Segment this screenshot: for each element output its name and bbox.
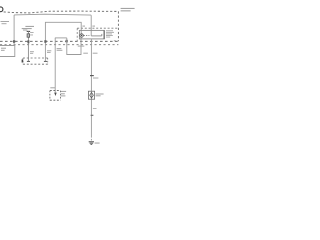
left margin label line 1 xyxy=(1,21,10,22)
fuse F1 body xyxy=(27,34,30,37)
switch S1 label line 2 xyxy=(57,49,63,52)
wire: left vertical feed (x=14.4) xyxy=(13,15,15,46)
relay K1 right edge (darker) xyxy=(103,30,105,39)
relay connector dashed box (bottom-right tick) xyxy=(114,40,119,42)
connector C1 cavity mark (left) xyxy=(22,60,24,63)
junction blob at line A crossing (x=66.6) xyxy=(66,40,68,43)
fuse F1 rating label 2 xyxy=(30,34,33,37)
connector C2 label line 2 xyxy=(61,93,65,94)
relay K1 contact tick xyxy=(101,34,103,36)
relay K1 name label line 2 xyxy=(106,31,114,34)
relay K1 name label line 4 xyxy=(106,34,113,37)
relay K1 coil circle xyxy=(80,34,83,37)
connector C2 label line 3 xyxy=(61,95,66,96)
relay K1 name label line 5 xyxy=(106,36,110,39)
relay K1 switch armature bar xyxy=(91,35,102,37)
relay connector dashed box (top edge) xyxy=(77,27,118,29)
switch box S1 (middle, open bottom) xyxy=(55,37,67,39)
fuse F1 label line 2 xyxy=(22,28,32,29)
wire label right of fuse wire above C1 xyxy=(30,51,34,52)
relay connector dashed box (left edge) xyxy=(76,28,78,41)
module label line 1 xyxy=(1,48,6,49)
splice tick (y=115.3) xyxy=(91,114,94,116)
fuse F1 label line 3 xyxy=(23,29,27,32)
wire colour label (left of pump wire) xyxy=(83,53,88,54)
pump M1 label line 2 xyxy=(96,95,101,96)
connector C1 terminal tick (coil wire) xyxy=(44,60,47,62)
connector C1 dashed box (left edge) xyxy=(22,58,24,64)
inline connector tick (y=75.6) xyxy=(90,75,94,77)
relay K1 pin label (coil pin) xyxy=(82,26,85,27)
wire: relay switch feed drop (x=91.2) xyxy=(90,15,92,36)
ground G1 symbol xyxy=(89,141,94,143)
wire: coil feed route (connector to relay coil) xyxy=(45,22,81,61)
relay K1 name label line 1 xyxy=(106,29,113,32)
pump M1 box xyxy=(88,91,94,99)
label below harness line B (x=78) xyxy=(78,46,85,47)
top-right harness label line 2 xyxy=(121,10,131,11)
module label line 2 xyxy=(1,50,5,51)
pump M1 diamond element xyxy=(90,93,94,98)
dashed harness line (top, y=11.8) xyxy=(4,11,119,13)
harness line A (long dashed, y=41.3) xyxy=(0,40,118,42)
fuse F1 top terminal tick xyxy=(27,30,30,32)
wire: S1 right pin to relay coil bottom xyxy=(67,37,81,54)
fuse F1 label line 1 xyxy=(25,26,34,27)
wire: S1 left pin down to connector C2 xyxy=(54,38,56,93)
connector C2 small label above-left xyxy=(50,87,55,88)
wire: faded dashed tail above ground xyxy=(90,136,92,141)
top-right harness label line 1 xyxy=(121,8,135,9)
pump M1 label line 1 xyxy=(96,94,104,95)
connector C2 terminal arrowhead xyxy=(54,93,57,96)
connector C1 terminal tick (fuse wire) xyxy=(27,60,30,62)
relay K1 coil core dot xyxy=(81,35,82,36)
wire label right of coil wire above C1 xyxy=(47,50,51,51)
ground G1 label xyxy=(95,143,100,144)
connector C1 dashed box (top edge) xyxy=(23,57,48,59)
switch S1 label line 1 xyxy=(57,47,62,50)
relay K1 coil-armature dashed link xyxy=(84,34,90,36)
fuse F1 wire down to connector C1 xyxy=(27,31,29,61)
harness line B (long dashed, y=44.7) xyxy=(0,44,118,46)
fuse F1 rating label xyxy=(30,31,33,34)
junction blob at line A crossing (x=28.4) xyxy=(27,40,29,43)
connector C1 dashed box (right edge) xyxy=(47,58,49,64)
module box (bottom-left, cut by page edge) xyxy=(0,46,15,57)
dashed harness drop (right, x=118.4) xyxy=(117,11,119,41)
connector C1 dashed box (bottom edge) xyxy=(23,63,48,65)
wire colour label (right of pump wire) xyxy=(93,53,98,54)
inline connector label xyxy=(93,78,98,79)
relay K1 name label line 3 xyxy=(106,33,112,36)
wire: top feed bus (y=15.2) xyxy=(14,13,91,16)
junction blob at line A crossing (x=14.4) xyxy=(13,40,15,43)
wire: relay output down to ground (x=91.4) xyxy=(90,39,92,136)
relay K1 box xyxy=(79,30,104,39)
left margin label line 2 xyxy=(2,23,7,24)
connector C2 dashed box (bottom-left) xyxy=(50,90,61,92)
relay K1 pin label (switch pin) xyxy=(92,26,95,27)
splice label xyxy=(93,107,97,110)
cut-off title glyph "0" (top-left) xyxy=(0,7,3,12)
connector C2 label line 1 xyxy=(61,91,66,92)
junction blob at line A crossing (x=45.4) xyxy=(44,40,46,43)
